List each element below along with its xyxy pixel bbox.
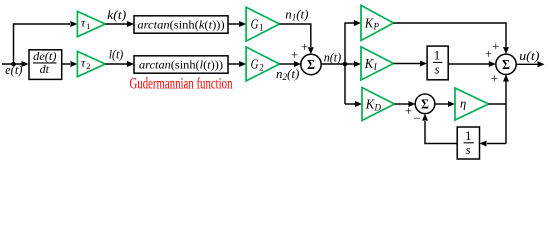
wire: branch up from e(t) junction to tau1 — [14, 24, 71, 64]
svg-text:Σ: Σ — [307, 57, 315, 72]
gain eta — [455, 88, 489, 120]
wire: KP output to final summer top — [394, 23, 507, 47]
svg-text:K: K — [364, 17, 374, 32]
svg-text:+: + — [405, 103, 412, 118]
svg-text:+: + — [491, 70, 498, 85]
wire: arctan1 to G1 — [228, 23, 239, 25]
svg-text:arctan(sinh(l(t))): arctan(sinh(l(t))) — [139, 58, 223, 72]
svg-text:+: + — [485, 46, 492, 61]
svg-text:G: G — [251, 57, 259, 72]
gain G1 — [246, 7, 279, 41]
block: arctan(sinh(k(t))) — [134, 16, 228, 33]
wire: final summer output u(t) — [516, 63, 538, 65]
wire: arctan2 to G2 — [228, 63, 239, 65]
svg-text:Gudermannian function: Gudermannian function — [130, 75, 233, 92]
svg-text:1: 1 — [434, 47, 441, 62]
block: derivative de(t)/dt — [29, 50, 62, 80]
block: integrator 1/s (feedback) — [457, 127, 479, 159]
wire: tau2 to arctan block, label l(t) — [105, 63, 127, 65]
svg-text:Σ: Σ — [421, 97, 429, 112]
svg-text:1: 1 — [86, 21, 90, 31]
wire: integrator to final summer — [448, 63, 489, 65]
svg-text:n2(t): n2(t) — [276, 66, 299, 82]
svg-text:dt: dt — [40, 62, 50, 76]
svg-text:G: G — [251, 17, 259, 32]
block: integrator 1/s (upper) — [427, 46, 448, 80]
svg-text:n1(t): n1(t) — [285, 7, 308, 23]
wire: summer S1 output n(t) to KI with junction — [321, 63, 354, 65]
gain tau2 — [77, 51, 105, 76]
wire: vertical branch from junction to KP — [345, 23, 354, 104]
svg-text:+: + — [492, 38, 499, 53]
summer S3 — [415, 94, 435, 114]
summer S2 (final) — [496, 54, 516, 74]
wire: tau1 to arctan block, label k(t) — [105, 23, 127, 25]
node: input junction on e(t) line — [11, 62, 16, 67]
block: arctan(sinh(l(t))) — [134, 56, 228, 73]
wire: eta output tee up to final summer and down to feedback — [489, 76, 507, 144]
wire: summer S3 to eta — [435, 103, 448, 105]
svg-text:1: 1 — [259, 22, 264, 32]
svg-text:e(t): e(t) — [5, 62, 22, 77]
svg-text:s: s — [466, 142, 471, 157]
wire: G1 output n1(t) down into summer S1 — [280, 24, 311, 47]
wire: feedback into bottom integrator — [487, 143, 506, 145]
wire: KD output to summer S3 — [395, 103, 409, 105]
svg-text:D: D — [374, 102, 382, 112]
svg-text:l(t): l(t) — [109, 47, 124, 62]
wire: input e(t) into derivative block — [2, 63, 26, 65]
wire: branch to KD — [345, 103, 355, 105]
svg-text:s: s — [434, 61, 439, 76]
svg-text:η: η — [460, 97, 466, 111]
svg-text:n(t): n(t) — [324, 50, 341, 65]
svg-text:de(t): de(t) — [33, 49, 56, 63]
gain KD — [362, 88, 395, 121]
wire: KI output to integrator — [394, 63, 421, 65]
svg-text:u(t): u(t) — [519, 48, 539, 63]
svg-text:k(t): k(t) — [107, 7, 126, 22]
svg-text:2: 2 — [259, 62, 264, 72]
gain KI — [361, 47, 394, 80]
gain KP — [361, 5, 394, 40]
svg-text:Σ: Σ — [502, 57, 510, 72]
summer S1 — [301, 54, 321, 74]
svg-text:2: 2 — [86, 61, 90, 71]
wire: derivative block to tau2 — [62, 63, 70, 65]
svg-text:K: K — [364, 57, 374, 72]
wire: G2 output n2(t) into summer S1 — [280, 63, 295, 65]
svg-text:P: P — [373, 22, 380, 32]
svg-text:1: 1 — [465, 128, 472, 143]
svg-text:+: + — [291, 47, 298, 62]
gain G2 — [246, 47, 279, 81]
gain tau1 — [77, 11, 105, 36]
svg-text:K: K — [365, 97, 375, 112]
svg-text:+: + — [301, 39, 308, 54]
wire: feedback integrator output up into summer S3 — [425, 121, 457, 144]
svg-text:arctan(sinh(k(t))): arctan(sinh(k(t))) — [137, 18, 224, 32]
